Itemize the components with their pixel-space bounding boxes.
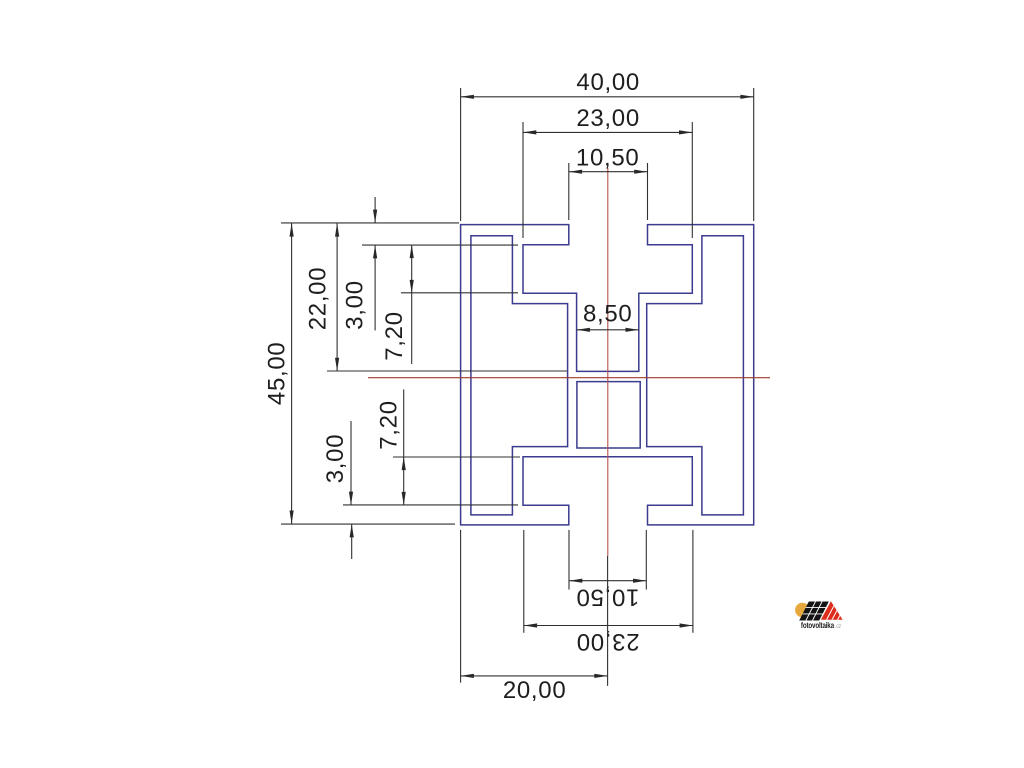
svg-text:40,00: 40,00 — [576, 69, 640, 96]
extension line 23,00 bottom right — [692, 530, 694, 633]
logo sun — [795, 603, 809, 617]
dimension 3,00 top lower arrow — [374, 245, 376, 330]
extension line 22,00 bottom — [327, 370, 567, 372]
extension line 10,50 right — [647, 163, 649, 220]
svg-text:45,00: 45,00 — [263, 342, 290, 406]
extension line 40,00 left — [460, 88, 462, 221]
profile center square cavity — [577, 382, 640, 448]
dimension line 23,00 bottom — [524, 625, 693, 627]
extension line 20,00 right (center) — [607, 556, 609, 686]
dimension line 40,00 — [461, 96, 754, 98]
logo panel grid lines — [803, 602, 829, 621]
extension line 23,00 bottom left — [523, 530, 525, 633]
extension line 7,20 top at step — [401, 292, 518, 294]
extension line 10,50 left — [568, 163, 570, 220]
svg-text:7,20: 7,20 — [381, 311, 408, 361]
dimension 3,00 bottom upper arrow — [350, 421, 352, 505]
dimension 7,20 bottom tail — [403, 389, 405, 456]
extension line 3,00 top at undercut — [362, 244, 518, 246]
extension line 45,00 / 3,00 bottom — [281, 523, 455, 525]
extension line 7,20 bottom at step — [393, 456, 520, 458]
extension line 45,00 top — [281, 222, 459, 224]
extension line 23,00 right — [691, 122, 693, 238]
dimension line 20,00 — [461, 675, 608, 677]
extension line 40,00 right — [753, 88, 755, 221]
dimension line 45,00 — [291, 223, 293, 524]
profile right inner cavity — [647, 236, 744, 515]
red horizontal centerline — [368, 377, 770, 379]
dimension line 7,20 bottom — [403, 457, 405, 505]
svg-text:3,00: 3,00 — [342, 280, 369, 330]
extension line 23,00 left — [522, 122, 524, 238]
svg-text:fotovoltaika .cz: fotovoltaika .cz — [801, 622, 841, 630]
dimension line 22,00 — [336, 223, 338, 371]
profile left inner cavity — [471, 236, 568, 515]
dimension line 8,50 — [577, 329, 639, 331]
logo red roof triangle — [821, 601, 843, 620]
dimension 3,00 top upper arrow — [374, 197, 376, 223]
dimension line 7,20 top — [411, 245, 413, 293]
extension line 10,50 bottom right — [645, 530, 647, 590]
svg-text:22,00: 22,00 — [304, 267, 331, 331]
extension line 3,00 bottom at undercut — [343, 504, 518, 506]
logo solar panel — [799, 602, 829, 621]
dimension 3,00 bottom lower arrow — [351, 524, 353, 559]
red vertical centerline — [607, 168, 609, 556]
dimension 7,20 top tail — [411, 293, 413, 364]
extension line 10,50 bottom left — [568, 530, 570, 590]
extension line 20,00 left — [460, 530, 462, 683]
dimension line 10,50 — [569, 171, 648, 173]
dimension line 23,00 — [523, 131, 692, 133]
logo roof white stripes — [826, 602, 847, 621]
svg-text:3,00: 3,00 — [322, 434, 349, 484]
profile outer contour — [461, 225, 754, 525]
svg-text:20,00: 20,00 — [503, 677, 567, 704]
dimension line 10,50 bottom — [569, 580, 646, 582]
svg-text:10,50: 10,50 — [576, 145, 640, 172]
svg-text:23,00: 23,00 — [576, 105, 640, 132]
svg-text:7,20: 7,20 — [376, 400, 403, 450]
svg-text:8,50: 8,50 — [583, 301, 633, 328]
